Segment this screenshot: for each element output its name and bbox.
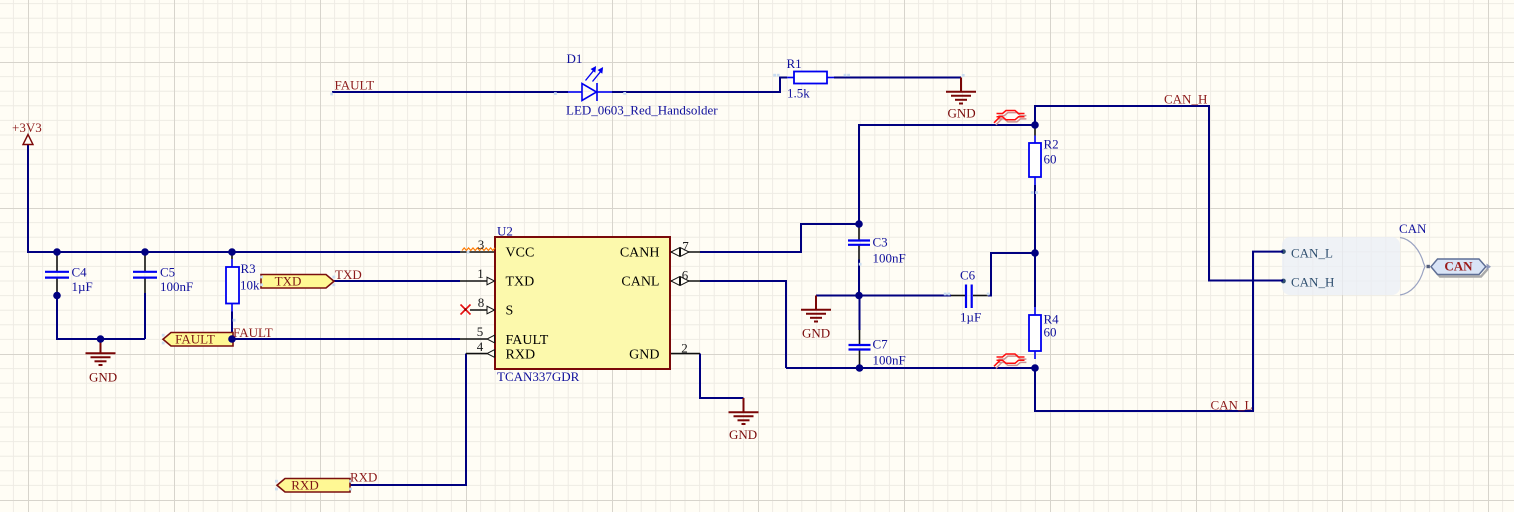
svg-text:GND: GND bbox=[89, 370, 117, 385]
svg-text:4: 4 bbox=[477, 339, 484, 354]
svg-text:C3: C3 bbox=[873, 235, 888, 250]
svg-text:1.5k: 1.5k bbox=[787, 86, 810, 101]
svg-text:R3: R3 bbox=[241, 261, 256, 276]
svg-text:GND: GND bbox=[948, 106, 976, 121]
svg-text:CAN: CAN bbox=[1444, 259, 1473, 274]
svg-text:6: 6 bbox=[682, 268, 689, 283]
svg-text:2: 2 bbox=[681, 341, 688, 356]
svg-text:FAULT: FAULT bbox=[175, 332, 215, 347]
svg-text:1µF: 1µF bbox=[960, 310, 981, 325]
svg-text:8: 8 bbox=[478, 295, 485, 310]
svg-text:TXD: TXD bbox=[506, 275, 535, 290]
svg-text:LED_0603_Red_Handsolder: LED_0603_Red_Handsolder bbox=[566, 103, 718, 118]
svg-text:5: 5 bbox=[477, 324, 484, 339]
svg-text:TXD: TXD bbox=[335, 267, 362, 282]
svg-text:+3V3: +3V3 bbox=[12, 120, 42, 135]
svg-text:D1: D1 bbox=[567, 51, 583, 66]
svg-text:VCC: VCC bbox=[506, 246, 535, 261]
svg-text:TCAN337GDR: TCAN337GDR bbox=[497, 369, 580, 384]
svg-text:C6: C6 bbox=[960, 268, 976, 283]
svg-text:CAN_L: CAN_L bbox=[1291, 245, 1333, 260]
svg-text:RXD: RXD bbox=[291, 478, 318, 493]
svg-text:1: 1 bbox=[477, 266, 484, 281]
svg-text:60: 60 bbox=[1044, 325, 1057, 340]
svg-text:S: S bbox=[506, 304, 514, 319]
svg-text:60: 60 bbox=[1044, 152, 1057, 167]
svg-text:100nF: 100nF bbox=[160, 279, 193, 294]
svg-text:10k: 10k bbox=[240, 278, 260, 293]
svg-text:CAN_L: CAN_L bbox=[1211, 398, 1253, 413]
svg-text:RXD: RXD bbox=[350, 470, 377, 485]
svg-text:CAN_H: CAN_H bbox=[1164, 92, 1207, 107]
svg-text:CANH: CANH bbox=[620, 246, 660, 261]
svg-text:FAULT: FAULT bbox=[335, 78, 375, 93]
svg-text:CAN_H: CAN_H bbox=[1291, 275, 1334, 290]
svg-text:RXD: RXD bbox=[506, 347, 536, 362]
svg-text:1µF: 1µF bbox=[72, 279, 93, 294]
svg-text:7: 7 bbox=[682, 239, 689, 254]
svg-text:100nF: 100nF bbox=[873, 353, 906, 368]
svg-text:CANL: CANL bbox=[621, 275, 659, 290]
svg-text:R1: R1 bbox=[787, 56, 802, 71]
svg-text:C5: C5 bbox=[160, 265, 175, 280]
svg-text:FAULT: FAULT bbox=[506, 333, 549, 348]
svg-text:CAN: CAN bbox=[1399, 221, 1427, 236]
svg-text:3: 3 bbox=[478, 237, 485, 252]
svg-text:U2: U2 bbox=[497, 224, 513, 239]
svg-text:GND: GND bbox=[729, 427, 757, 442]
svg-text:GND: GND bbox=[629, 347, 659, 362]
svg-text:TXD: TXD bbox=[275, 274, 302, 289]
svg-text:GND: GND bbox=[802, 326, 830, 341]
svg-text:R2: R2 bbox=[1044, 137, 1059, 152]
svg-text:100nF: 100nF bbox=[873, 251, 906, 266]
svg-text:C4: C4 bbox=[72, 265, 88, 280]
svg-text:FAULT: FAULT bbox=[233, 325, 273, 340]
svg-text:C7: C7 bbox=[873, 337, 889, 352]
